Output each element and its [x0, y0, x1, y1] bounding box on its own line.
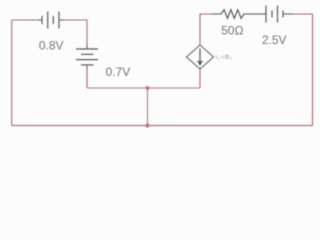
resistor R1 lead right / wire to battery V3	[244, 13, 267, 15]
wire right vertical	[312, 14, 314, 126]
wire bottom rail	[12, 125, 313, 127]
battery V3 2.5V plates	[266, 6, 283, 23]
svg-text:2.5V: 2.5V	[262, 33, 287, 47]
junction node upper	[146, 86, 150, 90]
resistor R1 50ohm zigzag	[221, 10, 244, 19]
wire left vertical	[11, 20, 13, 126]
junction node lower	[145, 123, 149, 127]
svg-text:0.8V: 0.8V	[39, 38, 64, 52]
wire top-left to battery V1	[12, 19, 38, 21]
svg-text:50Ω: 50Ω	[221, 23, 243, 37]
battery V1 0.8V lead right	[59, 19, 64, 21]
battery V2 0.7V plates	[76, 49, 98, 65]
wire battery V1 to corner, down to battery V2	[64, 20, 87, 44]
dependent current source U1 diamond	[187, 45, 214, 69]
resistor R1 lead left	[212, 13, 221, 15]
dependent source arrow (down)	[199, 49, 201, 62]
battery V3 2.5V lead right	[283, 13, 293, 15]
wire diamond top stem	[200, 14, 212, 45]
battery V1 0.8V lead left	[38, 19, 42, 21]
svg-text:0.7V: 0.7V	[106, 65, 131, 79]
wire battery V3 to right corner	[293, 13, 313, 15]
wire upper rail	[87, 87, 200, 89]
battery V2 0.7V top lead	[86, 44, 88, 49]
wire diamond bottom stem	[199, 69, 201, 88]
svg-text:i₁ =Φ₂: i₁ =Φ₂	[216, 54, 233, 61]
wire middle vertical between rails	[147, 88, 149, 126]
battery V2 0.7V bottom lead	[86, 65, 88, 69]
battery V1 0.8V plates	[42, 12, 59, 29]
wire battery V2 bottom stub to upper rail	[86, 69, 88, 89]
